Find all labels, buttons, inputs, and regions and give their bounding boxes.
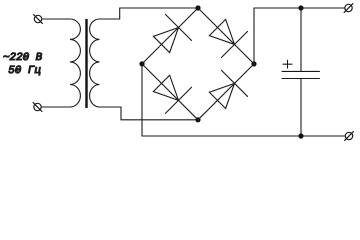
wire capacitor bottom lead [300,79,302,137]
diode VD1 (left-top arm, pointing to top node) [148,14,191,57]
node capacitor top junction [298,5,303,10]
wire bridge arm L-T [142,8,198,64]
svg-text:50 Гц: 50 Гц [8,65,41,77]
node capacitor bottom junction [298,133,303,138]
diode VD2 (top-right arm, pointing to right node) [204,14,247,57]
capacitor C1 bottom plate [282,78,320,80]
wire bridge arm T-R [198,8,254,64]
terminal X4 (bottom-right output) [345,132,354,141]
node left DC junction [139,61,144,66]
capacitor C1 top plate [282,70,320,72]
terminal X3 (top-right output) [344,4,353,13]
wire secondary bottom lead to AC bottom rail [100,107,196,120]
wire right node up to DC+ rail [254,8,345,64]
wire secondary top lead to top rail [100,8,196,19]
svg-text:~220 В: ~220 В [3,52,43,64]
wire left node down to DC- rail [142,64,345,136]
transformer T1 core [85,19,87,108]
terminal X2 (bottom-left input) [33,103,42,112]
wire primary bottom lead [41,106,70,108]
wire bridge arm B-R [198,64,254,120]
wire capacitor top lead [300,8,302,71]
capacitor C1 plus sign [283,60,292,68]
diode VD4 (bottom-right arm, pointing to right node) [204,70,247,113]
wire bridge arm L-B [142,64,198,120]
transformer T1 secondary winding [90,19,100,107]
node bottom AC junction [195,117,200,122]
transformer T1 primary winding [70,19,80,107]
zero slash of 220 [25,54,29,59]
diode VD3 (left-bottom arm, pointing to bottom node) [148,70,191,113]
terminal X1 (top-left input) [34,15,43,24]
wire primary top lead [42,18,70,20]
node top AC junction [195,5,200,10]
zero slash of 50 [17,67,21,72]
node right DC junction [251,61,256,66]
